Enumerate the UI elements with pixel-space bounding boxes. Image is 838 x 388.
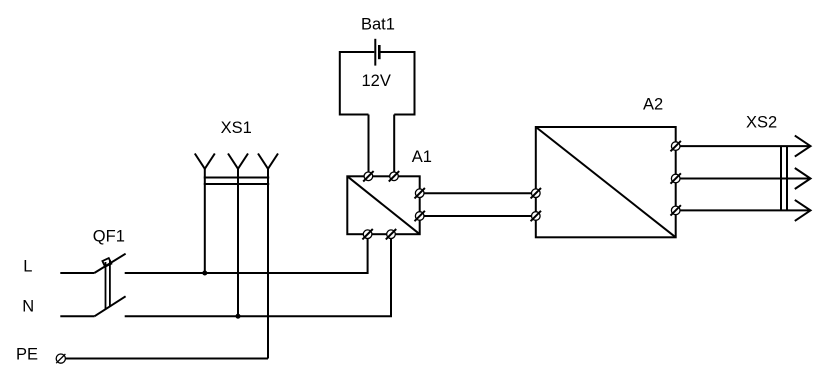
svg-text:A2: A2 [643, 96, 663, 114]
svg-text:12V: 12V [362, 72, 391, 90]
svg-text:Bat1: Bat1 [361, 16, 395, 34]
svg-text:PE: PE [16, 346, 38, 364]
svg-text:A1: A1 [412, 148, 432, 166]
svg-text:QF1: QF1 [93, 227, 125, 245]
svg-text:L: L [23, 258, 32, 276]
svg-text:XS2: XS2 [746, 114, 777, 132]
svg-text:XS1: XS1 [221, 119, 252, 137]
svg-text:N: N [22, 297, 34, 315]
